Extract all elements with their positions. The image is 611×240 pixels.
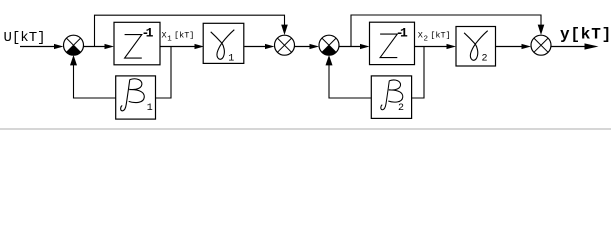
svg-text:1: 1 — [147, 103, 153, 114]
gain block gamma1 — [203, 23, 244, 64]
svg-text:X: X — [162, 30, 167, 40]
summing junction S3 — [319, 35, 339, 55]
svg-text:2: 2 — [424, 36, 429, 44]
wire: feedforward path 2 over the top into S4 — [351, 15, 544, 47]
svg-text:2: 2 — [482, 54, 488, 65]
output label y[kT] — [560, 26, 611, 44]
summing junction S1 — [64, 35, 84, 55]
horizontal rule at bottom — [0, 128, 611, 130]
svg-text:U[kT]: U[kT] — [4, 30, 46, 46]
svg-text:1: 1 — [167, 36, 172, 44]
input label U[kT] — [4, 30, 46, 46]
wire: state tap X2 down into beta2 — [412, 47, 424, 99]
node label X2[kT] — [418, 30, 451, 43]
feedback block beta1 — [116, 76, 156, 119]
svg-text:-1: -1 — [142, 25, 154, 40]
svg-text:[kT]: [kT] — [174, 30, 194, 40]
svg-text:-1: -1 — [396, 25, 408, 40]
wire: Z1 to gamma1 — [160, 44, 204, 49]
wire: beta2 output up into S3 — [326, 55, 372, 98]
svg-text:2: 2 — [398, 103, 404, 114]
svg-text:1: 1 — [228, 53, 234, 64]
wire: beta1 output up into S1 — [70, 55, 116, 98]
feedback block beta2 — [371, 76, 411, 119]
svg-text:[kT]: [kT] — [430, 30, 450, 40]
wire: S3 to Z2 — [339, 44, 370, 49]
wire: Z2 to gamma2 — [415, 44, 457, 49]
svg-text:y[kT]: y[kT] — [560, 26, 611, 44]
wire: state tap X1 down into beta1 — [156, 47, 172, 99]
delay block Z1 — [114, 22, 160, 65]
wire: S2 to S3 — [295, 44, 320, 49]
summing junction S2 — [275, 35, 295, 55]
wire: output with arrow — [551, 43, 599, 49]
delay block Z2 — [370, 22, 415, 64]
wire: feedforward path 1 over the top into S2 — [95, 15, 288, 46]
wire: S1 to Z1 — [84, 44, 115, 49]
node label X1[kT] — [162, 30, 195, 43]
summing junction S4 — [531, 35, 551, 55]
wire: gamma1 to S2 — [244, 44, 274, 49]
wire: gamma2 to S4 — [496, 44, 532, 49]
svg-text:X: X — [418, 30, 423, 40]
wire: input to summer S1 — [20, 44, 64, 49]
gain block gamma2 — [456, 27, 496, 67]
